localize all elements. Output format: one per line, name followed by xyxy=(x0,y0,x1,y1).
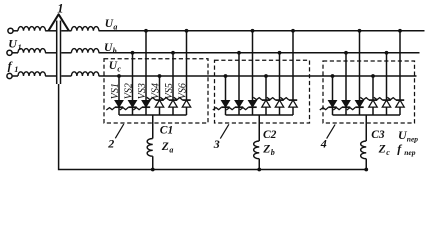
svg-text:1: 1 xyxy=(14,65,18,74)
svg-text:a: a xyxy=(113,22,117,31)
svg-text:c: c xyxy=(386,148,390,157)
svg-text:b: b xyxy=(113,46,117,55)
svg-text:1: 1 xyxy=(18,43,22,52)
svg-text:a: a xyxy=(169,146,173,155)
svg-text:b: b xyxy=(271,148,275,157)
svg-text:пер: пер xyxy=(407,134,419,143)
svg-text:Z: Z xyxy=(262,143,270,155)
svg-text:VS5: VS5 xyxy=(164,83,175,99)
svg-text:C3: C3 xyxy=(371,129,385,141)
svg-text:4: 4 xyxy=(320,137,327,151)
svg-text:VS1: VS1 xyxy=(110,83,121,99)
svg-text:VS2: VS2 xyxy=(123,83,134,99)
svg-text:1: 1 xyxy=(57,2,63,16)
svg-text:C1: C1 xyxy=(160,125,173,137)
svg-text:VS6: VS6 xyxy=(177,83,188,99)
svg-text:пер: пер xyxy=(404,148,416,157)
svg-text:C2: C2 xyxy=(263,129,277,141)
svg-text:Z: Z xyxy=(378,143,386,155)
svg-text:Z: Z xyxy=(161,141,169,153)
svg-text:VS3: VS3 xyxy=(137,83,148,99)
svg-text:c: c xyxy=(117,65,121,74)
svg-text:2: 2 xyxy=(107,137,114,151)
svg-text:VS4: VS4 xyxy=(150,83,161,99)
svg-text:3: 3 xyxy=(213,137,220,151)
